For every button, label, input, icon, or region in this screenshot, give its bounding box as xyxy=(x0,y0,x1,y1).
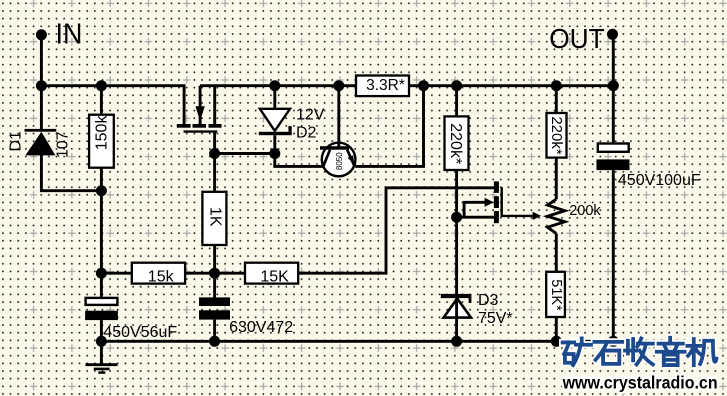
svg-text:51K*: 51K* xyxy=(548,279,564,311)
svg-text:15k: 15k xyxy=(148,268,175,285)
svg-text:D1: D1 xyxy=(8,131,25,152)
svg-text:200k: 200k xyxy=(569,203,601,219)
svg-text:630V472: 630V472 xyxy=(229,319,293,336)
svg-text:75V*: 75V* xyxy=(478,310,513,327)
svg-text:8050: 8050 xyxy=(335,152,344,170)
svg-text:1K: 1K xyxy=(206,207,223,227)
svg-text:D2: D2 xyxy=(296,125,317,142)
svg-text:15K: 15K xyxy=(260,268,289,285)
svg-text:220k*: 220k* xyxy=(548,116,565,155)
svg-text:220k*: 220k* xyxy=(447,123,464,164)
svg-text:D3: D3 xyxy=(478,292,499,309)
svg-text:12V: 12V xyxy=(296,107,325,124)
svg-text:3.3R*: 3.3R* xyxy=(366,77,405,94)
svg-text:OUT: OUT xyxy=(549,23,605,54)
svg-text:150k: 150k xyxy=(93,115,110,151)
svg-text:450V100uF: 450V100uF xyxy=(618,172,701,189)
svg-text:450V56uF: 450V56uF xyxy=(103,324,177,341)
svg-text:IN: IN xyxy=(56,19,83,51)
svg-text:107: 107 xyxy=(55,131,72,158)
svg-text:www.crystalradio.cn: www.crystalradio.cn xyxy=(562,372,718,392)
